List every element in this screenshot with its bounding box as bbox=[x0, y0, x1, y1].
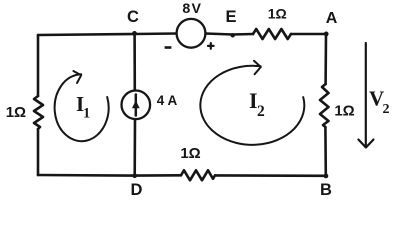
wire from 8V source to E to top resistor bbox=[206, 34, 254, 35]
svg-text:A: A bbox=[326, 10, 338, 27]
svg-text:1Ω: 1Ω bbox=[268, 5, 287, 21]
resistor 1Ω left bbox=[34, 96, 43, 129]
node D (junction dot) bbox=[132, 173, 137, 178]
label node D bbox=[131, 181, 143, 199]
label 1Ω right resistor bbox=[334, 103, 354, 120]
wire middle vertical from 4A source to D bbox=[133, 119, 136, 176]
wire from top resistor to node A bbox=[291, 33, 326, 36]
label node A bbox=[326, 10, 338, 27]
wire left vertical upper segment bbox=[37, 35, 40, 96]
resistor 1Ω top bbox=[253, 29, 291, 39]
label 8V bbox=[182, 1, 202, 17]
V2 polarity arrow (downward) bbox=[358, 43, 373, 148]
voltage source 8V plus sign bbox=[208, 43, 214, 49]
svg-text:D: D bbox=[131, 181, 143, 198]
wire from bottom resistor to node B bbox=[215, 174, 326, 177]
voltage source 8V minus sign bbox=[165, 46, 172, 49]
wire middle vertical from C to 4A source bbox=[133, 34, 136, 91]
node C (junction dot) bbox=[132, 31, 137, 36]
label 4 A current source bbox=[157, 93, 178, 108]
node E (junction dot) bbox=[231, 33, 235, 37]
mesh current I1 loop arrow bbox=[55, 71, 109, 141]
label V2 bbox=[369, 86, 390, 117]
svg-text:C: C bbox=[127, 8, 139, 26]
label 1Ω bottom resistor bbox=[180, 145, 200, 162]
svg-text:1Ω: 1Ω bbox=[6, 104, 26, 121]
wire top-left from corner to C to 8V source bbox=[38, 34, 177, 36]
svg-text:1Ω: 1Ω bbox=[334, 103, 354, 120]
label mesh current I2 bbox=[249, 88, 265, 120]
wire left vertical lower segment bbox=[37, 129, 40, 175]
svg-text:E: E bbox=[225, 8, 236, 26]
resistor 1Ω bottom bbox=[181, 170, 215, 180]
label 1Ω top resistor bbox=[268, 5, 287, 21]
wire bottom-left from corner to D to bottom resistor bbox=[38, 174, 181, 177]
label mesh current I1 bbox=[76, 92, 90, 122]
label node B bbox=[320, 181, 332, 199]
resistor 1Ω right bbox=[320, 84, 329, 127]
node A (junction dot) bbox=[324, 32, 329, 37]
svg-text:1Ω: 1Ω bbox=[180, 145, 200, 162]
svg-text:2: 2 bbox=[257, 103, 265, 120]
svg-text:4 A: 4 A bbox=[157, 93, 178, 108]
svg-text:B: B bbox=[320, 181, 332, 198]
mesh current I2 loop arrow bbox=[200, 61, 304, 145]
voltage source 8V (circle) bbox=[177, 19, 206, 48]
current source 4A (circle) bbox=[122, 91, 151, 120]
svg-text:2: 2 bbox=[383, 102, 390, 117]
svg-text:8V: 8V bbox=[182, 1, 202, 17]
label 1Ω left resistor bbox=[6, 104, 26, 121]
label node E bbox=[225, 8, 236, 26]
svg-text:1: 1 bbox=[83, 106, 90, 122]
wire right vertical from A to right resistor bbox=[324, 34, 327, 84]
node B (junction dot) bbox=[324, 174, 329, 179]
wire right vertical from right resistor to B bbox=[324, 127, 327, 176]
current source 4A up arrow bbox=[132, 95, 140, 116]
label node C bbox=[127, 8, 139, 26]
